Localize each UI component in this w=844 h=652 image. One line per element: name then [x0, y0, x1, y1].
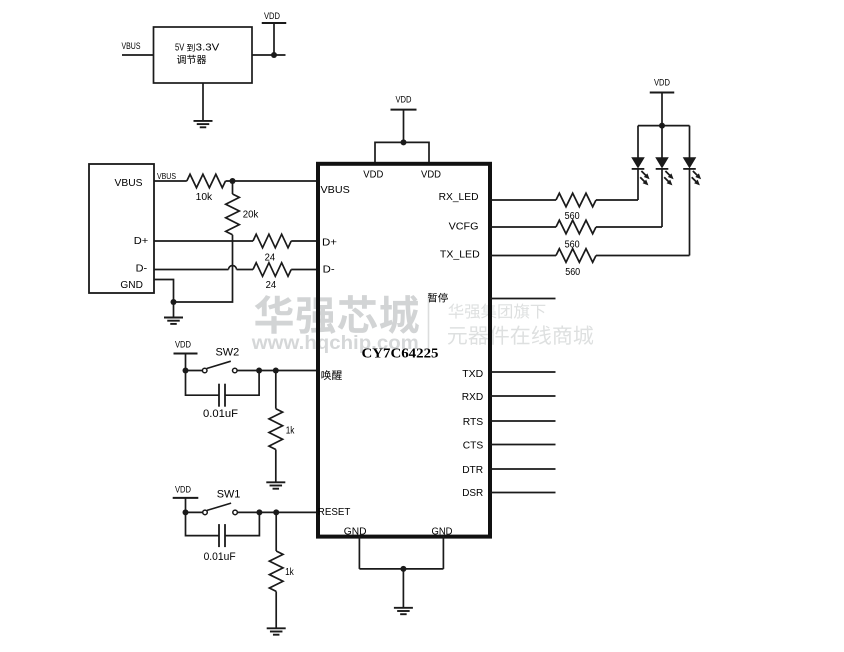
wire 24 to chip D- — [291, 269, 316, 271]
resistor R 560 (RX_LED) — [556, 193, 596, 207]
wire D+ from USB — [154, 240, 253, 242]
wire TXD stub — [490, 371, 556, 373]
svg-text:VDD: VDD — [363, 168, 383, 180]
ground (USB) — [164, 317, 183, 319]
svg-text:GND: GND — [344, 525, 367, 537]
svg-text:TXD: TXD — [462, 368, 483, 380]
svg-text:3.3V: 3.3V — [196, 42, 220, 54]
node VBUS junction — [230, 178, 236, 184]
wire 20k bottom down to gnd row — [174, 241, 233, 302]
resistor R 20k (vertical) — [232, 181, 234, 194]
switch SW1 — [203, 510, 208, 515]
svg-text:VDD: VDD — [264, 11, 280, 21]
usb ground stem — [173, 302, 175, 318]
regulator output wire — [252, 54, 286, 56]
USB connector J1 box — [89, 164, 154, 293]
wire LED2 cathode — [661, 169, 663, 227]
IC U1 CY7C64225 box — [318, 164, 490, 537]
node SW1 res junction — [273, 509, 279, 515]
pin label wake (chip) — [321, 370, 331, 380]
wire RXD stub — [490, 395, 556, 397]
wire LED1 anode — [637, 126, 639, 158]
svg-text:VDD: VDD — [654, 78, 670, 88]
chip ground stem — [402, 569, 404, 608]
svg-text:TX_LED: TX_LED — [440, 248, 480, 260]
wire LED3 cathode — [689, 169, 691, 256]
svg-text:VBUS: VBUS — [321, 184, 350, 196]
node SW2 cap junction — [256, 368, 262, 374]
node GND junction — [171, 299, 177, 305]
node SW1 cap junction — [256, 509, 262, 515]
svg-text:VDD: VDD — [396, 95, 412, 105]
wire DTR stub — [490, 468, 556, 470]
ground (regulator) — [194, 120, 213, 122]
node VDD junction at regulator output — [271, 52, 277, 58]
node SW1 left junction — [183, 509, 189, 515]
wire R to LED1 — [596, 199, 638, 201]
svg-text:D+: D+ — [134, 235, 149, 247]
ground (SW1 1k) — [267, 627, 286, 629]
wire RTS stub — [490, 420, 556, 422]
svg-text:1k: 1k — [286, 424, 295, 436]
svg-text:VDD: VDD — [421, 168, 441, 180]
wire SW2 row left — [186, 370, 203, 372]
node LED rail junction — [659, 123, 665, 129]
wire TX_LED to R — [490, 255, 556, 257]
node SW2 left junction — [183, 368, 189, 374]
node VDD top junction — [401, 139, 407, 145]
node SW2 res junction — [273, 368, 279, 374]
LED D1 — [632, 158, 644, 168]
svg-text:RX_LED: RX_LED — [439, 191, 479, 203]
svg-text:VDD: VDD — [175, 484, 191, 494]
capacitor C 0.01uF (SW2) — [186, 371, 220, 396]
regulator label line2 (regulator cn) — [177, 55, 186, 64]
resistor R 560 (VCFG) — [556, 220, 596, 234]
svg-text:VBUS: VBUS — [115, 177, 143, 189]
wire D- from USB with hop — [154, 269, 229, 271]
power VDD symbol (chip top) — [391, 109, 417, 111]
watermark — [251, 295, 593, 354]
switch SW2 — [202, 368, 207, 373]
svg-text:RESET: RESET — [318, 506, 351, 518]
ground (SW2 1k) — [266, 481, 285, 483]
wire USB GND pin — [154, 280, 174, 303]
wire R to LED2 — [596, 226, 662, 228]
svg-text:DSR: DSR — [462, 487, 483, 499]
wire VCFG to R — [490, 226, 556, 228]
svg-text:SW2: SW2 — [216, 347, 240, 359]
node GND bottom junction — [400, 566, 406, 572]
svg-text:24: 24 — [266, 280, 277, 291]
wire LED2 anode — [661, 126, 663, 158]
svg-text:D-: D- — [323, 264, 336, 276]
svg-text:VBUS: VBUS — [122, 41, 141, 51]
svg-text:RTS: RTS — [463, 416, 484, 428]
wire CTS stub — [490, 444, 556, 446]
resistor R 560 (TX_LED) — [556, 249, 596, 263]
regulator U - 5V to 3.3V box — [154, 27, 253, 83]
LED rail wire — [638, 125, 690, 127]
svg-text:SW1: SW1 — [217, 489, 241, 501]
power VDD symbol (regulator) — [262, 22, 287, 24]
resistor R 1k (SW2) — [275, 371, 277, 409]
svg-text:10k: 10k — [196, 192, 214, 203]
wire RX_LED to R — [490, 199, 556, 201]
wire DSR stub — [490, 492, 556, 494]
svg-text:DTR: DTR — [462, 464, 483, 476]
resistor R 1k (SW1) — [275, 512, 277, 551]
wire SW1 row right to chip — [237, 511, 316, 513]
svg-text:0.01uF: 0.01uF — [204, 551, 236, 563]
svg-text:20k: 20k — [243, 210, 259, 221]
LED D3 — [684, 158, 696, 168]
svg-text:1k: 1k — [285, 566, 294, 578]
wire 10k to chip VBUS — [226, 180, 317, 182]
pin label pause (chip) — [428, 293, 437, 303]
regulator input wire VBUS — [122, 54, 154, 56]
wire LED3 anode — [689, 126, 691, 158]
resistor R 10k — [187, 174, 226, 188]
svg-text:VBUS: VBUS — [157, 171, 176, 181]
LED D2 — [656, 158, 668, 168]
resistor R 24 (D-) — [253, 263, 291, 277]
wire GND bottom rail — [359, 568, 443, 570]
wire pause stub — [490, 298, 556, 300]
svg-text:560: 560 — [565, 267, 580, 278]
power VDD symbol (SW1) — [173, 497, 199, 499]
resistor R 24 (D+) — [253, 234, 291, 248]
ground (chip) — [394, 607, 413, 609]
svg-text:GND: GND — [432, 525, 453, 537]
capacitor C 0.01uF (SW1) — [186, 512, 220, 535]
wire GND right pin — [442, 536, 444, 569]
svg-text:VDD: VDD — [175, 339, 191, 349]
wire VBUS from USB to R 10k — [154, 180, 187, 182]
svg-text:VCFG: VCFG — [449, 220, 479, 232]
svg-text:D-: D- — [136, 262, 148, 274]
wire R to LED3 — [596, 255, 690, 257]
wire SW2 row right to chip — [237, 370, 316, 372]
power VDD symbol (LEDs) — [650, 92, 675, 94]
wire 24 to chip D+ — [291, 240, 316, 242]
svg-text:5V: 5V — [175, 42, 184, 54]
svg-text:CY7C64225: CY7C64225 — [362, 347, 439, 362]
svg-text:CTS: CTS — [463, 439, 484, 451]
svg-text:RXD: RXD — [462, 391, 484, 403]
wire LED1 cathode — [637, 169, 639, 200]
svg-text:D+: D+ — [322, 237, 337, 249]
svg-text:0.01uF: 0.01uF — [203, 408, 238, 420]
power VDD symbol (SW2) — [174, 353, 198, 355]
wire SW1 row left — [186, 511, 203, 513]
wire GND left pin — [358, 536, 360, 569]
svg-text:GND: GND — [120, 279, 143, 291]
regulator ground stem — [202, 83, 204, 121]
chip top VDD pins wires — [375, 142, 429, 162]
svg-text:24: 24 — [265, 252, 276, 263]
